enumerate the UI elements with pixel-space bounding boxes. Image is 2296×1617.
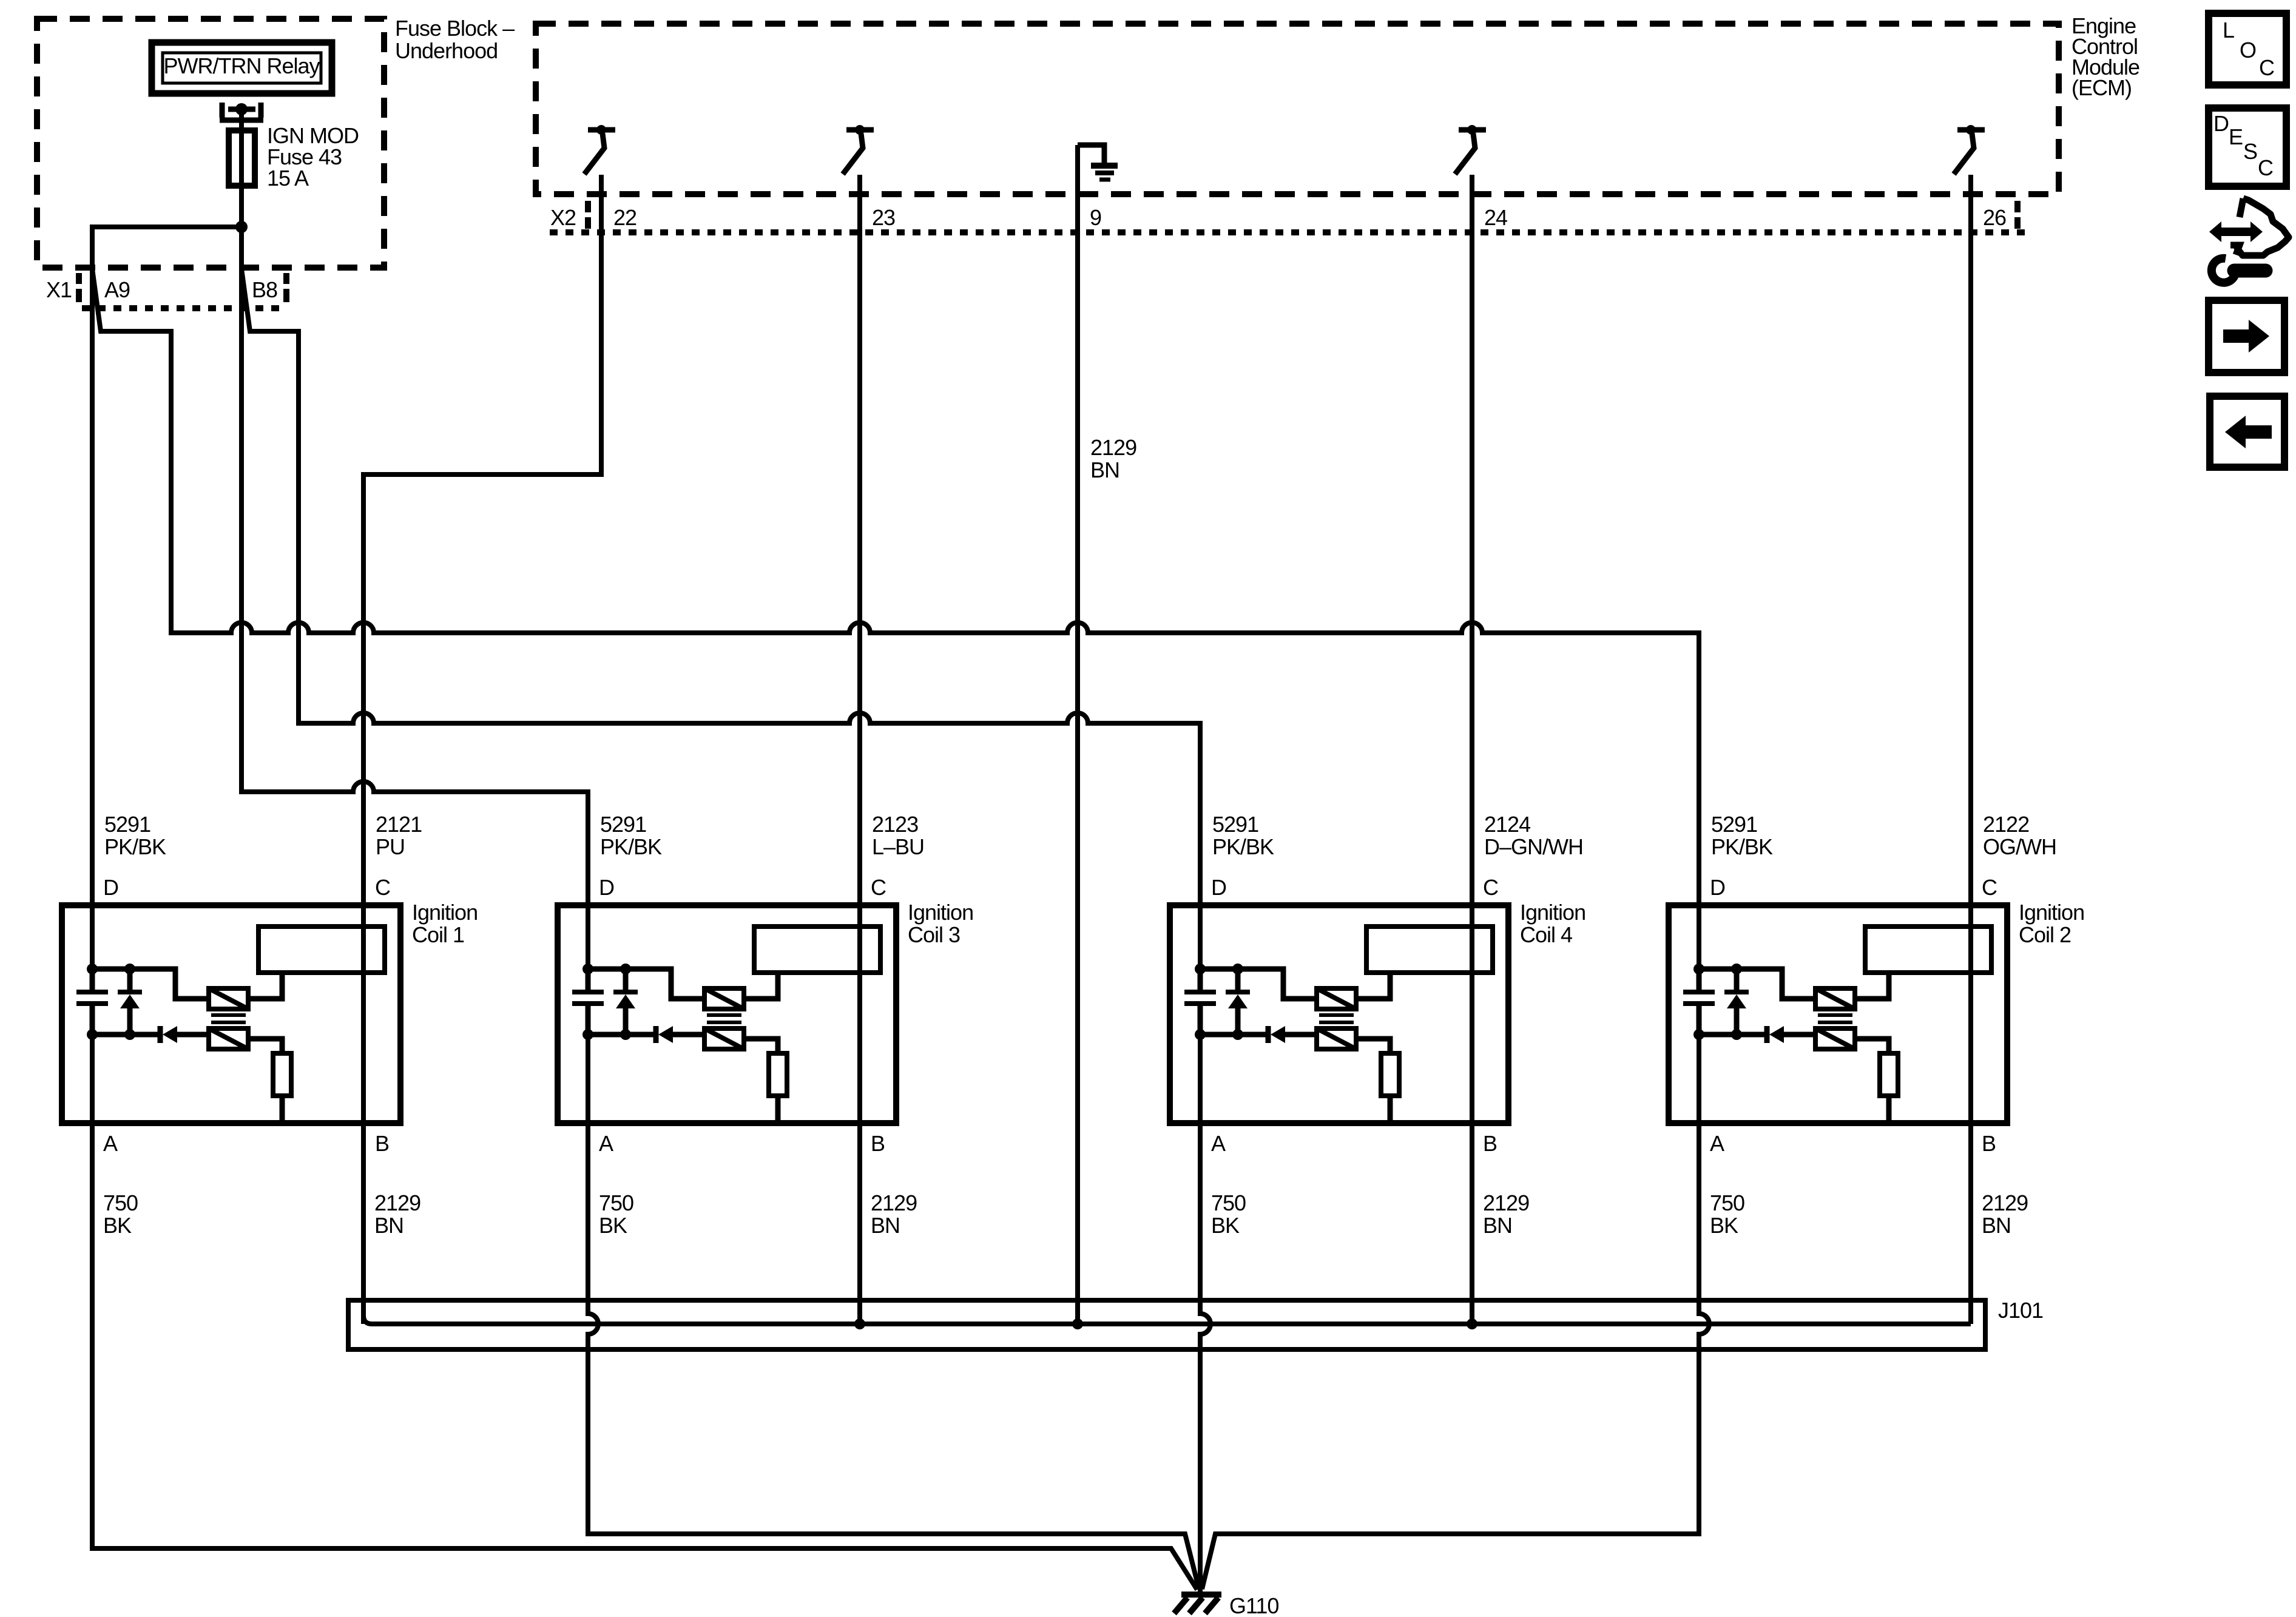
svg-text:2129: 2129 xyxy=(1090,435,1136,460)
svg-text:2122: 2122 xyxy=(1983,812,2029,837)
vehicle and wrench icon xyxy=(2209,198,2289,283)
svg-text:Ignition: Ignition xyxy=(908,900,973,925)
svg-text:PWR/TRN Relay: PWR/TRN Relay xyxy=(163,53,320,78)
wire branch to A9 xyxy=(92,227,241,269)
svg-text:2121: 2121 xyxy=(376,812,422,837)
wire A9 connector pin slant, branch and bus to coil 2 pin D xyxy=(92,269,1699,969)
ignition coil 1 xyxy=(62,905,400,1123)
wire ECM pin 23 to coil 3 pin C (2123 L-BU) down to J101 xyxy=(857,175,862,1324)
wire B8 connector pin slant, branch and bus to coil 4 pin D xyxy=(241,269,1200,969)
svg-text:B: B xyxy=(1483,1131,1497,1156)
svg-text:E: E xyxy=(2229,124,2243,149)
wire ECM pin 26 to coil 2 pin C (2122 OG/WH) down to J101 xyxy=(1968,175,1973,1324)
svg-text:D–GN/WH: D–GN/WH xyxy=(1484,834,1583,859)
ECM driver pin 23 xyxy=(846,127,874,133)
svg-text:2129: 2129 xyxy=(1483,1190,1529,1215)
connector X2 dotted line xyxy=(550,229,2027,235)
svg-text:15 A: 15 A xyxy=(267,166,309,191)
wire coil 1 pin A (750 BK) to G110 xyxy=(92,1035,1197,1590)
svg-text:BK: BK xyxy=(599,1213,627,1238)
svg-text:Coil 1: Coil 1 xyxy=(412,922,464,947)
wire coil 3 pin A (750 BK) to G110 xyxy=(588,1035,1199,1589)
svg-text:PK/BK: PK/BK xyxy=(1212,834,1274,859)
svg-text:J101: J101 xyxy=(1998,1298,2043,1323)
svg-text:D: D xyxy=(1211,875,1226,900)
svg-text:26: 26 xyxy=(1983,205,2006,230)
svg-text:A9: A9 xyxy=(104,277,130,302)
wire B8 feed to coil 3 pin D xyxy=(241,269,588,969)
svg-text:PK/BK: PK/BK xyxy=(600,834,662,859)
svg-text:BN: BN xyxy=(1483,1213,1512,1238)
junction coil 4 B at J101 xyxy=(1467,1318,1477,1329)
svg-text:Fuse Block –: Fuse Block – xyxy=(395,16,515,41)
svg-text:750: 750 xyxy=(599,1190,633,1215)
DESC icon box xyxy=(2209,108,2286,186)
svg-text:L–BU: L–BU xyxy=(872,834,924,859)
svg-text:Ignition: Ignition xyxy=(1520,900,1585,925)
wire fuse to B8 xyxy=(239,227,244,269)
svg-text:Ignition: Ignition xyxy=(2019,900,2084,925)
svg-text:750: 750 xyxy=(1710,1190,1744,1215)
svg-text:D: D xyxy=(2213,111,2229,136)
ECM driver pin 26 xyxy=(1957,127,1985,133)
svg-text:23: 23 xyxy=(872,205,895,230)
ECM driver pin 22 xyxy=(584,125,615,174)
fuse IGN MOD Fuse 43 15 A xyxy=(239,130,244,227)
svg-text:Coil 4: Coil 4 xyxy=(1520,922,1572,947)
svg-text:A: A xyxy=(1211,1131,1226,1156)
junction coil 3 B at J101 xyxy=(854,1318,865,1329)
J101 internal conductor xyxy=(363,1315,1971,1324)
svg-text:Underhood: Underhood xyxy=(395,38,498,63)
svg-text:BN: BN xyxy=(374,1213,403,1238)
svg-text:B: B xyxy=(1982,1131,1996,1156)
svg-text:C: C xyxy=(1483,875,1498,900)
svg-text:X2: X2 xyxy=(550,205,576,230)
PWR/TRN relay box xyxy=(152,42,332,93)
svg-text:B: B xyxy=(871,1131,885,1156)
wire ECM pin 9 (2129 BN) down to J101 xyxy=(1075,145,1080,1324)
svg-text:Coil 3: Coil 3 xyxy=(908,922,960,947)
ignition coil 4 xyxy=(1170,905,1508,1123)
svg-text:BN: BN xyxy=(1982,1213,2011,1238)
svg-text:2129: 2129 xyxy=(374,1190,420,1215)
wire coil 2 pin A (750 BK) to G110 xyxy=(1202,1035,1709,1589)
engine control module dashed box xyxy=(536,24,2059,194)
svg-text:9: 9 xyxy=(1090,205,1101,230)
svg-text:A: A xyxy=(1710,1131,1724,1156)
svg-text:Coil 2: Coil 2 xyxy=(2019,922,2071,947)
svg-text:750: 750 xyxy=(1211,1190,1246,1215)
connector X1 end marks xyxy=(79,273,286,302)
svg-text:L: L xyxy=(2223,18,2234,42)
svg-text:24: 24 xyxy=(1484,205,1507,230)
svg-text:5291: 5291 xyxy=(104,812,150,837)
relay contact xyxy=(220,103,263,120)
splice pack J101 outline xyxy=(348,1300,1985,1349)
left arrow icon box xyxy=(2210,396,2284,467)
svg-text:G110: G110 xyxy=(1229,1593,1278,1617)
ground G110 symbol xyxy=(1181,1592,1221,1598)
junction pin 9 wire at J101 xyxy=(1072,1318,1083,1329)
svg-text:O: O xyxy=(2240,38,2256,62)
svg-text:C: C xyxy=(2259,55,2274,80)
svg-text:X1: X1 xyxy=(46,277,72,302)
svg-text:A: A xyxy=(599,1131,613,1156)
svg-text:2124: 2124 xyxy=(1484,812,1530,837)
wire relay to fuse xyxy=(239,112,244,130)
svg-text:750: 750 xyxy=(103,1190,138,1215)
svg-text:A: A xyxy=(103,1131,118,1156)
svg-text:5291: 5291 xyxy=(1212,812,1258,837)
svg-text:D: D xyxy=(599,875,614,900)
svg-text:B8: B8 xyxy=(252,277,277,302)
fuse block - underhood dashed box xyxy=(37,19,384,268)
wire ECM pin 22 to coil 1 pin C (2121 PU) down to J101 xyxy=(363,175,601,1324)
svg-text:C: C xyxy=(1982,875,1997,900)
svg-text:Ignition: Ignition xyxy=(412,900,478,925)
wire A9 feed to coil 1 pin D (5291 PK/BK) xyxy=(90,269,95,969)
svg-text:PK/BK: PK/BK xyxy=(1711,834,1773,859)
wire coil 4 pin A (750 BK) to G110 xyxy=(1200,1035,1210,1592)
svg-text:BK: BK xyxy=(1211,1213,1240,1238)
svg-text:2129: 2129 xyxy=(1982,1190,2028,1215)
svg-text:C: C xyxy=(375,875,390,900)
svg-text:BK: BK xyxy=(103,1213,132,1238)
svg-text:D: D xyxy=(103,875,118,900)
svg-text:S: S xyxy=(2243,139,2257,164)
svg-text:BK: BK xyxy=(1710,1213,1738,1238)
svg-text:5291: 5291 xyxy=(1711,812,1757,837)
svg-text:2129: 2129 xyxy=(871,1190,917,1215)
ECM internal ground pin 9 xyxy=(1078,145,1104,163)
connector X2 end marks xyxy=(588,201,2017,229)
svg-text:5291: 5291 xyxy=(600,812,646,837)
svg-text:2123: 2123 xyxy=(872,812,918,837)
svg-text:C: C xyxy=(871,875,886,900)
junction node below fuse xyxy=(235,221,248,233)
svg-text:D: D xyxy=(1710,875,1725,900)
svg-text:B: B xyxy=(375,1131,389,1156)
svg-text:(ECM): (ECM) xyxy=(2071,75,2132,100)
svg-text:22: 22 xyxy=(613,205,636,230)
ignition coil 3 xyxy=(558,905,896,1123)
svg-text:OG/WH: OG/WH xyxy=(1983,834,2056,859)
svg-text:PK/BK: PK/BK xyxy=(104,834,166,859)
right arrow icon box xyxy=(2209,300,2284,373)
svg-text:PU: PU xyxy=(376,834,405,859)
svg-text:C: C xyxy=(2258,155,2273,180)
ECM driver pin 24 xyxy=(1459,127,1486,133)
svg-text:BN: BN xyxy=(871,1213,900,1238)
connector X1 dotted line xyxy=(82,305,285,311)
LOC icon box xyxy=(2209,13,2286,85)
wire ECM pin 24 to coil 4 pin C (2124 D-GN/WH) down to J101 xyxy=(1470,175,1474,1324)
ignition coil 2 xyxy=(1669,905,2007,1123)
svg-text:BN: BN xyxy=(1090,457,1119,482)
